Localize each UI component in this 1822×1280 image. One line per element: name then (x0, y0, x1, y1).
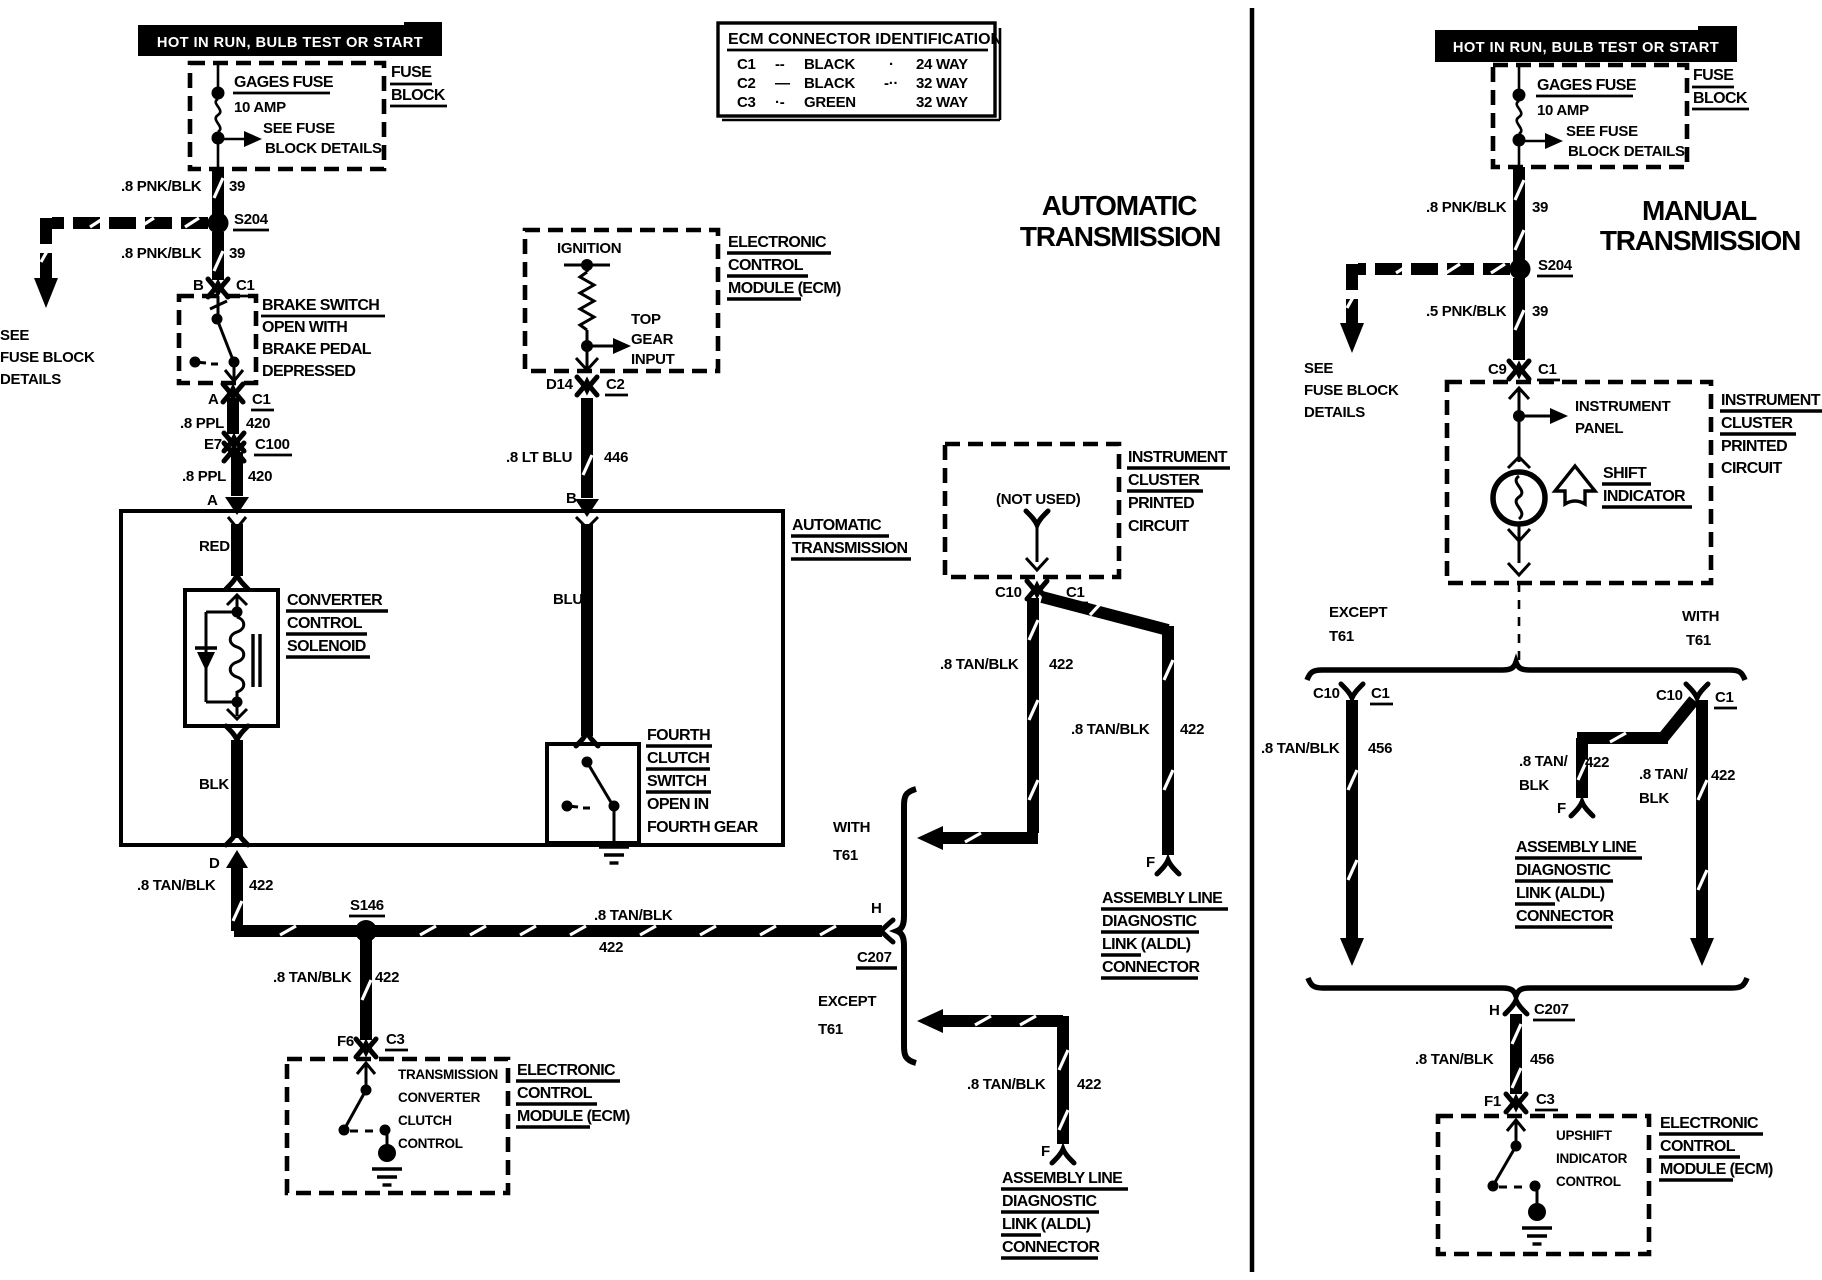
svg-text:422: 422 (1180, 721, 1204, 738)
svg-text:T61: T61 (818, 1021, 843, 1038)
wire 39 fuse to S204 (121, 169, 245, 215)
wire 39 S204 to C1 (121, 232, 245, 280)
wire 422 horizontal to C207 (234, 907, 882, 956)
label EXCEPT T61 (manual) (1329, 604, 1387, 645)
fourth clutch switch box (547, 744, 639, 843)
shift indicator arrow icon (1555, 466, 1595, 504)
label AUTOMATIC TRANSMISSION (box label) (791, 517, 911, 559)
svg-text:420: 420 (246, 415, 270, 432)
svg-text:.8 TAN/BLK: .8 TAN/BLK (1071, 721, 1150, 738)
svg-text:INDICATOR: INDICATOR (1603, 488, 1686, 505)
svg-text:CLUTCH: CLUTCH (647, 750, 709, 767)
svg-text:39: 39 (229, 178, 245, 195)
fuse block box right (1493, 65, 1687, 167)
svg-text:WITH: WITH (833, 819, 870, 836)
svg-text:422: 422 (599, 939, 623, 956)
power banner HOT IN RUN right (1435, 26, 1737, 62)
svg-text:S204: S204 (234, 211, 269, 228)
wire BLK solenoid to box edge (199, 726, 248, 845)
svg-text:PANEL: PANEL (1575, 420, 1623, 437)
svg-text:.8 PPL: .8 PPL (180, 415, 224, 432)
svg-text:CONTROL: CONTROL (728, 257, 804, 274)
label INSTRUMENT CLUSTER PRINTED CIRCUIT (manual) (1720, 392, 1822, 477)
svg-text:DIAGNOSTIC: DIAGNOSTIC (1002, 1193, 1097, 1210)
svg-text:CLUSTER: CLUSTER (1721, 415, 1793, 432)
ECM connector identification table (718, 23, 1002, 120)
svg-text:32 WAY: 32 WAY (916, 75, 968, 92)
svg-text:B: B (566, 490, 577, 507)
svg-text:BLOCK DETAILS: BLOCK DETAILS (265, 140, 382, 157)
automatic transmission outer box (121, 511, 783, 845)
svg-text:C207: C207 (857, 949, 892, 966)
splice S204 right (1510, 257, 1574, 280)
label GAGES FUSE 10 AMP (233, 74, 334, 116)
svg-text:.8 PNK/BLK: .8 PNK/BLK (121, 178, 202, 195)
svg-text:A: A (207, 492, 218, 509)
svg-text:SEE: SEE (1304, 360, 1333, 377)
fuse block box left (190, 63, 384, 169)
instrument cluster box (manual) (1447, 382, 1711, 583)
svg-text:ELECTRONIC: ELECTRONIC (1660, 1115, 1759, 1132)
svg-text:-··: -·· (884, 75, 898, 92)
svg-text:FOURTH GEAR: FOURTH GEAR (647, 819, 759, 836)
svg-text:CIRCUIT: CIRCUIT (1721, 460, 1783, 477)
svg-text:C1: C1 (737, 56, 756, 73)
svg-text:DETAILS: DETAILS (0, 371, 61, 388)
wire 446 (506, 398, 628, 517)
wire 422 down (WITH T61) (1639, 700, 1735, 966)
label ELECTRONIC CONTROL MODULE (ECM) manual (1659, 1115, 1773, 1180)
upshift switch symbol (1488, 1120, 1553, 1244)
svg-text:D14: D14 (546, 376, 574, 393)
svg-text:OPEN WITH: OPEN WITH (262, 319, 347, 336)
label ASSEMBLY LINE DIAGNOSTIC LINK (ALDL) CONNECTOR (upper) (1101, 890, 1228, 978)
svg-text:BLOCK: BLOCK (1693, 90, 1748, 107)
svg-text:GEAR: GEAR (631, 331, 674, 348)
wire 420 C100 to A (182, 452, 272, 515)
svg-text:FUSE: FUSE (1693, 67, 1734, 84)
svg-text:MANUAL: MANUAL (1642, 195, 1757, 226)
svg-text:INSTRUMENT: INSTRUMENT (1575, 398, 1670, 415)
svg-text:DIAGNOSTIC: DIAGNOSTIC (1516, 862, 1611, 879)
svg-text:LINK (ALDL): LINK (ALDL) (1002, 1216, 1091, 1233)
svg-text:SHIFT: SHIFT (1603, 465, 1647, 482)
label GAGES FUSE 10 AMP right (1536, 77, 1637, 119)
svg-text:LINK (ALDL): LINK (ALDL) (1516, 885, 1605, 902)
svg-text:LINK (ALDL): LINK (ALDL) (1102, 936, 1191, 953)
svg-text:TOP: TOP (631, 311, 661, 328)
connector F6 C3 (337, 1031, 408, 1057)
svg-text:FUSE BLOCK: FUSE BLOCK (1304, 382, 1399, 399)
svg-text:CONVERTER: CONVERTER (287, 592, 383, 609)
solenoid internals: chevron, coil, diode, core (195, 595, 260, 719)
svg-text:BLK: BLK (1639, 790, 1669, 807)
svg-text:SOLENOID: SOLENOID (287, 638, 366, 655)
label WITH T61 (auto) (833, 819, 870, 864)
arrow SEE FUSE BLOCK DETAILS (inside fuse box) (218, 120, 382, 157)
svg-text:OPEN IN: OPEN IN (647, 796, 709, 813)
svg-text:INSTRUMENT: INSTRUMENT (1128, 449, 1228, 466)
svg-text:F6: F6 (337, 1033, 354, 1050)
svg-text:UPSHIFT: UPSHIFT (1556, 1128, 1613, 1143)
svg-text:C10: C10 (1656, 687, 1683, 704)
label FOURTH CLUTCH SWITCH OPEN IN FOURTH GEAR (646, 727, 759, 836)
svg-text:C10: C10 (1313, 685, 1340, 702)
svg-text:ASSEMBLY LINE: ASSEMBLY LINE (1102, 890, 1223, 907)
wire 422 C10 left branch (WITH T61) (917, 598, 1073, 850)
svg-text:422: 422 (1711, 767, 1735, 784)
svg-text:DETAILS: DETAILS (1304, 404, 1365, 421)
svg-text:.8 PPL: .8 PPL (182, 468, 226, 485)
svg-text:H: H (871, 900, 882, 917)
wire RED into solenoid (199, 517, 248, 589)
svg-text:.5 PNK/BLK: .5 PNK/BLK (1426, 303, 1507, 320)
connector C10 C1 (manual left) (1313, 684, 1393, 704)
svg-text:H: H (1489, 1002, 1500, 1019)
label ASSEMBLY LINE DIAGNOSTIC LINK (ALDL) CONNECTOR (lower) (1001, 1170, 1128, 1258)
svg-text:420: 420 (248, 468, 272, 485)
svg-text:CONTROL: CONTROL (1556, 1174, 1621, 1189)
svg-text:.8 TAN/BLK: .8 TAN/BLK (137, 877, 216, 894)
svg-text:422: 422 (1585, 754, 1609, 771)
svg-text:T61: T61 (1686, 632, 1711, 649)
wire 422 S146 down to C3 (273, 940, 399, 1040)
svg-text:RED: RED (199, 538, 230, 555)
connector C9 C1 (1488, 361, 1560, 380)
svg-text:.8 TAN/BLK: .8 TAN/BLK (1261, 740, 1340, 757)
ignition feed symbol (557, 240, 621, 272)
svg-text:456: 456 (1530, 1051, 1554, 1068)
svg-text:456: 456 (1368, 740, 1392, 757)
svg-text:AUTOMATIC: AUTOMATIC (792, 517, 882, 534)
wire BLU to fourth clutch switch (553, 517, 598, 746)
svg-text:CIRCUIT: CIRCUIT (1128, 518, 1190, 535)
svg-text:T61: T61 (833, 847, 858, 864)
node D exit arrow (209, 850, 248, 872)
svg-text:C1: C1 (1538, 361, 1557, 378)
power banner HOT IN RUN left (138, 22, 442, 56)
label BRAKE SWITCH (261, 297, 385, 380)
svg-text:C1: C1 (1371, 685, 1390, 702)
connector D14 C2 (546, 376, 628, 395)
fourth clutch switch symbol (562, 757, 630, 864)
fuse GAGES FUSE symbol (212, 87, 225, 170)
svg-text:AUTOMATIC: AUTOMATIC (1042, 190, 1198, 221)
svg-text:SWITCH: SWITCH (647, 773, 707, 790)
svg-text:32 WAY: 32 WAY (916, 94, 968, 111)
svg-text:TRANSMISSION: TRANSMISSION (398, 1067, 498, 1082)
connector H C207 (856, 900, 897, 968)
label ELECTRONIC CONTROL MODULE (ECM) bottom-left (516, 1062, 630, 1127)
svg-text:EXCEPT: EXCEPT (1329, 604, 1387, 621)
svg-text:C1: C1 (252, 391, 271, 408)
svg-text:ASSEMBLY LINE: ASSEMBLY LINE (1516, 839, 1637, 856)
svg-text:(NOT USED): (NOT USED) (996, 491, 1081, 508)
splice S204 left (208, 211, 270, 234)
label FUSE BLOCK right (1692, 67, 1749, 109)
svg-text:BLACK: BLACK (804, 56, 855, 73)
ECM box bottom-left (TCC control) (287, 1059, 508, 1193)
label WITH T61 (manual) (1682, 608, 1719, 649)
svg-text:.8 TAN/BLK: .8 TAN/BLK (273, 969, 352, 986)
svg-text:PRINTED: PRINTED (1721, 438, 1787, 455)
ECM ignition box (top middle) (525, 230, 718, 371)
arrow SEE FUSE BLOCK DETAILS (inside fuse box) right (1519, 123, 1685, 160)
bottom brace (manual) (1308, 978, 1747, 996)
svg-text:CONNECTOR: CONNECTOR (1516, 908, 1614, 925)
svg-text:CONTROL: CONTROL (287, 615, 363, 632)
svg-text:FUSE: FUSE (391, 64, 432, 81)
dashed wire to fuse block details arrow right (1304, 264, 1510, 421)
cluster feed node and INSTRUMENT PANEL arrow (1509, 388, 1670, 462)
svg-text:C3: C3 (1536, 1091, 1555, 1108)
svg-text:SEE FUSE: SEE FUSE (263, 120, 335, 137)
svg-text:INSTRUMENT: INSTRUMENT (1721, 392, 1821, 409)
label FUSE BLOCK left (390, 64, 447, 106)
svg-text:CONTROL: CONTROL (517, 1085, 593, 1102)
svg-text:B: B (193, 277, 204, 294)
svg-text:C1: C1 (1715, 689, 1734, 706)
converter control solenoid box (185, 590, 278, 726)
svg-text:C10: C10 (995, 584, 1022, 601)
svg-text:SEE: SEE (0, 327, 29, 344)
wire 422 D to corner (137, 866, 273, 931)
svg-text:C9: C9 (1488, 361, 1507, 378)
svg-text:DIAGNOSTIC: DIAGNOSTIC (1102, 913, 1197, 930)
wire 456 C207 to C3 (1415, 1014, 1554, 1094)
svg-text:F: F (1041, 1143, 1050, 1160)
svg-text:ASSEMBLY LINE: ASSEMBLY LINE (1002, 1170, 1123, 1187)
title AUTOMATIC TRANSMISSION (1020, 190, 1220, 252)
instrument cluster box (auto) (945, 444, 1119, 577)
connector B C1 (193, 277, 258, 297)
svg-text:422: 422 (249, 877, 273, 894)
wire 420 A to C100 (180, 398, 270, 434)
wire into fuse (217, 63, 220, 92)
svg-text:.8 LT BLU: .8 LT BLU (506, 449, 572, 466)
svg-text:·-: ·- (775, 94, 785, 111)
svg-text:F: F (1146, 854, 1155, 871)
svg-text:BLK: BLK (199, 776, 229, 793)
svg-text:BLU: BLU (553, 591, 583, 608)
connector H C207 (manual) (1489, 1000, 1575, 1020)
svg-text:ELECTRONIC: ELECTRONIC (728, 234, 827, 251)
svg-text:C3: C3 (737, 94, 756, 111)
svg-text:GAGES FUSE: GAGES FUSE (1537, 77, 1637, 94)
resistor (top gear input pull-up) (580, 272, 594, 330)
connector F1 C3 (1484, 1091, 1558, 1112)
svg-text:FOURTH: FOURTH (647, 727, 710, 744)
svg-text:FUSE BLOCK: FUSE BLOCK (0, 349, 95, 366)
brace WITH/EXCEPT T61 (auto) (897, 789, 916, 1063)
svg-text:MODULE (ECM): MODULE (ECM) (728, 280, 841, 297)
svg-text:DEPRESSED: DEPRESSED (262, 363, 355, 380)
svg-text:CLUTCH: CLUTCH (398, 1113, 452, 1128)
svg-text:ECM CONNECTOR IDENTIFICATION: ECM CONNECTOR IDENTIFICATION (728, 31, 1002, 48)
svg-text:CONTROL: CONTROL (1660, 1138, 1736, 1155)
svg-text:—: — (775, 75, 790, 92)
svg-text:S146: S146 (350, 897, 384, 914)
svg-text:.8 TAN/: .8 TAN/ (1519, 753, 1569, 770)
svg-text:.8 PNK/BLK: .8 PNK/BLK (1426, 199, 1507, 216)
svg-text:422: 422 (375, 969, 399, 986)
svg-text:10 AMP: 10 AMP (234, 99, 286, 116)
svg-text:TRANSMISSION: TRANSMISSION (792, 540, 908, 557)
svg-text:C100: C100 (255, 436, 290, 453)
svg-text:BLOCK: BLOCK (391, 87, 446, 104)
connector C10 C1 (manual right) (1656, 684, 1737, 708)
svg-text:HOT IN RUN, BULB TEST OR START: HOT IN RUN, BULB TEST OR START (1453, 40, 1719, 56)
node and arrow TOP GEAR INPUT (576, 311, 675, 370)
svg-text:INDICATOR: INDICATOR (1556, 1151, 1628, 1166)
label UPSHIFT INDICATOR CONTROL (1556, 1128, 1628, 1189)
svg-text:·: · (889, 56, 894, 73)
title MANUAL TRANSMISSION (1600, 195, 1800, 256)
svg-text:39: 39 (1532, 199, 1548, 216)
dashed wire to fuse block details arrow left (0, 218, 208, 388)
wire 39 fuse to S204 right (1426, 167, 1548, 261)
svg-text:BLK: BLK (1519, 777, 1549, 794)
wire 422 EXCEPT T61 branch to lower ALDL (917, 1009, 1101, 1163)
divider line (1250, 8, 1255, 1272)
svg-text:.8 TAN/BLK: .8 TAN/BLK (594, 907, 673, 924)
wire 422 C10 right branch to ALDL F (1042, 597, 1204, 874)
svg-text:HOT IN RUN, BULB TEST OR START: HOT IN RUN, BULB TEST OR START (157, 35, 423, 51)
svg-text:.8 PNK/BLK: .8 PNK/BLK (121, 245, 202, 262)
svg-text:T61: T61 (1329, 628, 1354, 645)
svg-text:SEE FUSE: SEE FUSE (1566, 123, 1638, 140)
connector E7 C100 (204, 433, 292, 461)
svg-text:WITH: WITH (1682, 608, 1719, 625)
svg-text:.8 TAN/BLK: .8 TAN/BLK (967, 1076, 1046, 1093)
svg-text:TRANSMISSION: TRANSMISSION (1020, 221, 1220, 252)
svg-text:CONNECTOR: CONNECTOR (1002, 1239, 1100, 1256)
svg-text:422: 422 (1049, 656, 1073, 673)
svg-text:CONVERTER: CONVERTER (398, 1090, 481, 1105)
svg-text:CLUSTER: CLUSTER (1128, 472, 1200, 489)
svg-text:F: F (1557, 800, 1566, 817)
TCC switch symbol (339, 1063, 403, 1185)
svg-text:C1: C1 (236, 277, 255, 294)
splice S146 (349, 897, 385, 942)
label CONVERTER CONTROL SOLENOID (286, 592, 388, 657)
svg-text:MODULE (ECM): MODULE (ECM) (1660, 1161, 1773, 1178)
svg-text:D: D (209, 855, 220, 872)
bulb shift indicator lamp (1493, 457, 1545, 575)
brake switch box (179, 296, 256, 383)
svg-text:446: 446 (604, 449, 628, 466)
connector A C1 (208, 384, 274, 410)
svg-text:INPUT: INPUT (631, 351, 675, 368)
svg-text:--: -- (775, 56, 785, 73)
dashed wire below cluster (1518, 583, 1521, 662)
svg-text:ELECTRONIC: ELECTRONIC (517, 1062, 616, 1079)
svg-text:GREEN: GREEN (804, 94, 856, 111)
svg-text:F1: F1 (1484, 1093, 1501, 1110)
svg-text:422: 422 (1077, 1076, 1101, 1093)
label SHIFT INDICATOR (1602, 465, 1692, 507)
label TRANSMISSION CONVERTER CLUTCH CONTROL (398, 1067, 498, 1151)
svg-text:IGNITION: IGNITION (557, 240, 621, 257)
label INSTRUMENT CLUSTER PRINTED CIRCUIT (auto) (1127, 449, 1230, 535)
connector C10 C1 (auto) (995, 581, 1088, 603)
svg-text:24 WAY: 24 WAY (916, 56, 968, 73)
top brace (manual) (1307, 662, 1745, 680)
svg-text:GAGES FUSE: GAGES FUSE (234, 74, 334, 91)
label ASSEMBLY LINE DIAGNOSTIC LINK (ALDL) CONNECTOR (manual) (1515, 839, 1642, 927)
wire 422 to F (manual) (1519, 700, 1694, 817)
svg-text:BRAKE SWITCH: BRAKE SWITCH (262, 297, 379, 314)
label ELECTRONIC CONTROL MODULE (ECM) top (727, 234, 841, 299)
svg-text:C2: C2 (737, 75, 756, 92)
brake switch symbol (190, 296, 244, 381)
ECM box (manual, upshift) (1438, 1116, 1649, 1254)
svg-text:S204: S204 (1538, 257, 1573, 274)
svg-text:MODULE (ECM): MODULE (ECM) (517, 1108, 630, 1125)
svg-text:.8 TAN/BLK: .8 TAN/BLK (940, 656, 1019, 673)
svg-text:C3: C3 (386, 1031, 405, 1048)
svg-text:.8 TAN/BLK: .8 TAN/BLK (1415, 1051, 1494, 1068)
svg-text:EXCEPT: EXCEPT (818, 993, 876, 1010)
svg-text:CONNECTOR: CONNECTOR (1102, 959, 1200, 976)
svg-text:10 AMP: 10 AMP (1537, 102, 1589, 119)
wire 39 S204 to C1 right (1426, 278, 1548, 360)
svg-text:PRINTED: PRINTED (1128, 495, 1194, 512)
svg-text:BRAKE PEDAL: BRAKE PEDAL (262, 341, 372, 358)
svg-text:A: A (208, 391, 219, 408)
svg-text:39: 39 (229, 245, 245, 262)
svg-text:39: 39 (1532, 303, 1548, 320)
label EXCEPT T61 (auto) (818, 993, 876, 1038)
svg-text:TRANSMISSION: TRANSMISSION (1600, 225, 1800, 256)
svg-text:C207: C207 (1534, 1001, 1569, 1018)
svg-text:BLOCK DETAILS: BLOCK DETAILS (1568, 143, 1685, 160)
not used terminal (996, 491, 1081, 570)
svg-text:C2: C2 (606, 376, 625, 393)
wire 456 down (EXCEPT T61) (1261, 700, 1392, 966)
wire into fuse right (1518, 65, 1521, 94)
svg-text:BLACK: BLACK (804, 75, 855, 92)
svg-text:CONTROL: CONTROL (398, 1136, 463, 1151)
svg-text:.8 TAN/: .8 TAN/ (1639, 766, 1689, 783)
fuse GAGES FUSE symbol right (1513, 89, 1526, 168)
svg-text:E7: E7 (204, 436, 222, 453)
